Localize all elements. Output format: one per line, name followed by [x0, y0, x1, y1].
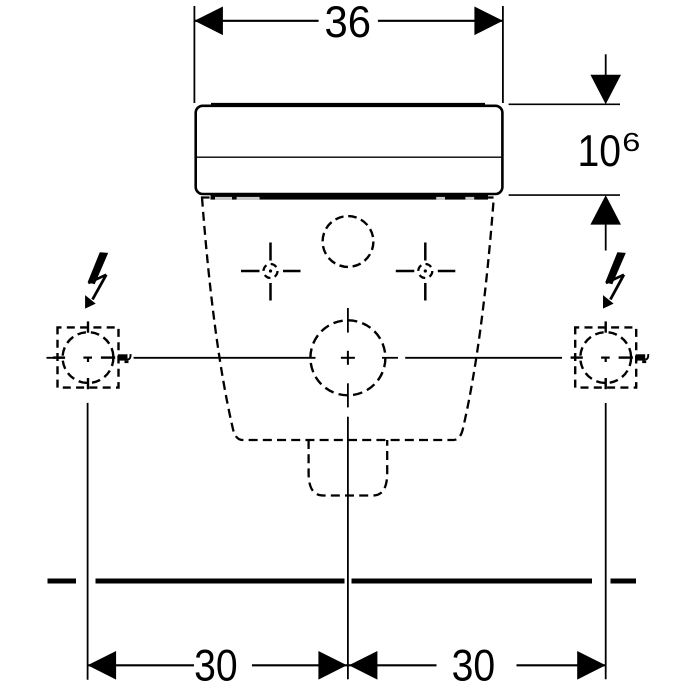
svg-text:30: 30	[452, 640, 496, 690]
dimension 30 arrows center	[318, 651, 347, 680]
floor line	[48, 579, 637, 584]
dimension 10-6 lower leader	[605, 224, 607, 251]
power connection right	[571, 321, 649, 389]
svg-text:36: 36	[324, 0, 371, 47]
cistern tank body	[196, 106, 503, 194]
dimension 36 arrow left	[194, 7, 223, 36]
dimension 10-6 top extension line	[509, 103, 620, 105]
fixing bolt marker left	[241, 243, 301, 301]
bowl outline	[202, 198, 494, 441]
svg-text:10: 10	[578, 126, 622, 176]
drain circle center plus	[341, 351, 355, 365]
dimension 10-6 arrow up	[590, 195, 621, 225]
tank lid top edge	[211, 103, 485, 106]
water supply circle	[323, 216, 374, 267]
dimension 10-6 upper leader	[605, 54, 607, 76]
svg-text:6: 6	[622, 128, 640, 157]
dimension 36 extension line right	[502, 6, 504, 103]
fixing bolt marker right	[396, 243, 456, 301]
power connection left	[53, 321, 131, 389]
lightning bolt right	[603, 252, 626, 308]
drain circle	[310, 320, 385, 395]
tank lid seam line	[195, 156, 503, 158]
dimension 36 line	[194, 20, 503, 22]
svg-text:30: 30	[194, 640, 238, 690]
vertical centerline main	[347, 417, 349, 680]
horizontal centerline segments	[47, 357, 563, 359]
drain sleeve U-shape	[309, 440, 388, 496]
dimension 10-6 bottom extension line	[509, 194, 620, 196]
dimension 30 arrow far left	[88, 651, 117, 680]
dimension 30 line	[88, 664, 606, 666]
dimension 10-6 arrow down	[590, 75, 621, 105]
extension line bottom right	[605, 403, 607, 679]
tank bottom shadow bar	[211, 195, 489, 200]
dimension 30 arrow far right	[577, 651, 606, 680]
dimension 36 arrow right	[474, 7, 503, 36]
dimension 36 extension line left	[193, 6, 195, 103]
vertical centerline ticks around drain circle	[347, 308, 349, 407]
extension line bottom left	[87, 403, 89, 680]
lightning bolt left	[85, 252, 108, 308]
